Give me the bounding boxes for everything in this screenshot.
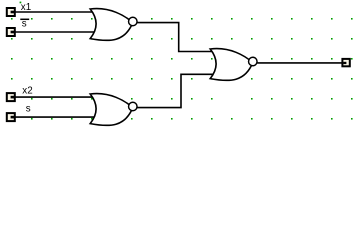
wire nS to U1 input B [14,31,95,33]
wire x1 to U1 input A [14,11,95,13]
wire U2 output to U3 input B [137,74,215,107]
NOR gate U3 (middle, output stage) [210,49,257,81]
input terminal I2 (nS) [7,28,15,36]
input terminal I1 (x1) [7,8,15,16]
svg-text:s: s [22,19,27,30]
svg-text:s: s [26,104,31,115]
wire s to U2 input B [14,116,95,118]
wire U1 output to U3 input A [137,23,215,52]
wire U3 output to terminal u [257,62,342,64]
NOR gate U1 (top, inputs x1 and nS) [90,9,137,41]
NOR gate U2 (bottom, inputs x2 and s) [90,94,137,126]
wire x2 to U2 input A [14,96,95,98]
svg-text:x1: x1 [21,2,31,13]
input terminal I3 (x2) [7,93,15,101]
overbar of s-bar label [20,18,29,20]
svg-text:x2: x2 [22,85,32,96]
output terminal O1 [342,59,349,66]
input terminal I4 (s) [7,113,15,121]
